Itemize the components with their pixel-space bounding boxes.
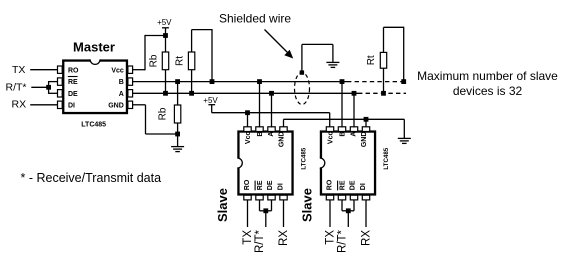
svg-text:Slave: Slave — [215, 188, 230, 222]
svg-text:R/T*: R/T* — [6, 81, 27, 93]
svg-text:Vcc: Vcc — [328, 132, 335, 145]
svg-text:B: B — [339, 132, 346, 137]
svg-text:LTC485: LTC485 — [81, 122, 106, 129]
svg-text:RE: RE — [339, 180, 346, 190]
svg-text:Maximum number of slave: Maximum number of slave — [417, 69, 558, 83]
svg-text:TX: TX — [324, 230, 336, 245]
svg-text:B: B — [257, 132, 264, 137]
svg-text:A: A — [351, 132, 358, 137]
svg-text:Rb: Rb — [158, 107, 169, 120]
svg-text:DI: DI — [277, 183, 284, 190]
svg-text:R/T*: R/T* — [254, 229, 266, 253]
svg-text:RO: RO — [68, 67, 79, 74]
svg-text:B: B — [119, 79, 124, 86]
svg-text:A: A — [119, 91, 124, 98]
svg-text:Rt: Rt — [174, 56, 185, 66]
svg-text:+5V: +5V — [203, 96, 218, 105]
svg-text:GND: GND — [361, 132, 368, 148]
svg-text:A: A — [268, 132, 275, 137]
svg-text:Rt: Rt — [366, 55, 377, 65]
svg-text:Master: Master — [73, 40, 115, 55]
svg-text:RO: RO — [244, 179, 251, 190]
svg-text:DI: DI — [360, 183, 367, 190]
svg-text:R/T*: R/T* — [336, 229, 348, 253]
svg-text:LTC485: LTC485 — [383, 147, 390, 169]
svg-text:Vcc: Vcc — [111, 67, 124, 74]
svg-text:RX: RX — [360, 230, 372, 246]
svg-text:* - Receive/Transmit data: * - Receive/Transmit data — [21, 171, 162, 185]
svg-text:Shielded wire: Shielded wire — [219, 11, 291, 25]
svg-text:DI: DI — [68, 102, 75, 109]
svg-text:TX: TX — [12, 64, 25, 76]
svg-text:DE: DE — [350, 180, 357, 190]
svg-text:DE: DE — [68, 91, 78, 98]
svg-text:GND: GND — [278, 132, 285, 148]
svg-text:+5V: +5V — [157, 18, 172, 27]
svg-text:LTC485: LTC485 — [301, 147, 308, 169]
svg-text:TX: TX — [242, 230, 254, 245]
svg-text:GND: GND — [108, 102, 124, 109]
svg-text:Vcc: Vcc — [245, 132, 252, 145]
svg-text:RO: RO — [327, 179, 334, 190]
svg-text:RE: RE — [257, 180, 264, 190]
svg-text:RE: RE — [68, 79, 78, 86]
svg-text:RX: RX — [12, 98, 27, 110]
svg-text:DE: DE — [267, 180, 274, 190]
svg-text:devices is 32: devices is 32 — [453, 84, 523, 98]
svg-text:Rb: Rb — [149, 54, 160, 67]
svg-text:RX: RX — [278, 230, 290, 246]
svg-text:Slave: Slave — [300, 188, 315, 222]
